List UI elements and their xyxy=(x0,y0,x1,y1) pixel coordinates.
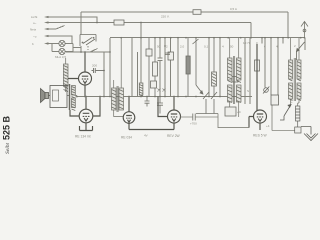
wire x104 xyxy=(103,52,105,97)
wire x265 xyxy=(264,38,266,88)
svg-text:+: + xyxy=(291,100,293,104)
component box under bus3 xyxy=(146,49,152,56)
component box on x257 xyxy=(255,60,260,71)
wire y113.5 xyxy=(196,113,218,115)
svg-text:RE 034: RE 034 xyxy=(121,136,132,140)
svg-text:200: 200 xyxy=(92,64,97,68)
wire x170 xyxy=(170,38,172,97)
wire terminal line 3 with switch blade xyxy=(46,26,65,30)
component box mid xyxy=(151,81,157,88)
switch S1 box xyxy=(80,35,96,47)
antenna symbol xyxy=(301,22,308,39)
speaker LS xyxy=(41,86,68,108)
wire x305 right drop xyxy=(304,38,306,50)
svg-text:0,5 A: 0,5 A xyxy=(230,7,237,11)
wire x178 xyxy=(177,38,179,97)
svg-text:525 B: 525 B xyxy=(2,115,12,140)
wire bus1 left drop xyxy=(80,12,82,35)
tube V5 xyxy=(249,44,267,130)
wire contact blade on y52 xyxy=(90,49,98,53)
interstage transformer T2 xyxy=(112,38,124,117)
fuse F1 on bus1 xyxy=(193,10,201,15)
svg-text:Netz: Netz xyxy=(30,28,37,32)
wire lamp bracket right xyxy=(65,44,81,52)
jack circle xyxy=(263,87,269,94)
wire x132 xyxy=(131,38,133,97)
svg-text:Licht: Licht xyxy=(31,15,38,19)
lamp L2 xyxy=(59,48,65,54)
svg-text:+4: +4 xyxy=(266,124,270,128)
ground arrow xyxy=(301,127,318,141)
capacitor C3 700 xyxy=(193,114,195,121)
svg-text:220 V.: 220 V. xyxy=(161,15,170,19)
wire x271 xyxy=(270,38,272,95)
output transformer T1 xyxy=(67,84,77,111)
svg-text:2,0: 2,0 xyxy=(180,45,185,49)
svg-text:4V: 4V xyxy=(144,134,148,138)
wire right cluster feed xyxy=(272,95,295,131)
battery cell box xyxy=(295,127,301,133)
component box x170 xyxy=(168,52,174,60)
antenna coil LA xyxy=(64,58,69,92)
plus marks xyxy=(266,100,293,128)
wire switch feed xyxy=(80,46,82,52)
svg-text:Seibt: Seibt xyxy=(5,143,11,154)
value labels xyxy=(55,7,296,126)
wire bus1 top xyxy=(81,11,288,13)
capacitor C4 xyxy=(232,77,238,83)
wire x160 with capacitor xyxy=(159,38,161,97)
wire line y52 xyxy=(66,51,110,53)
wire x220 xyxy=(219,38,221,97)
resistor R5 on x141 xyxy=(139,83,143,95)
svg-text:o~: o~ xyxy=(33,21,37,25)
af transformer T3 lower xyxy=(228,85,242,117)
svg-text:0,1: 0,1 xyxy=(204,45,209,49)
wire terminal line 4 xyxy=(46,36,72,44)
svg-text:REV 2W: REV 2W xyxy=(167,134,181,138)
terminal arrowheads xyxy=(44,16,49,45)
tube V1 xyxy=(68,52,104,97)
svg-text:S: S xyxy=(247,89,249,93)
wire x165 xyxy=(164,38,166,97)
wire terminal line 1 xyxy=(46,17,97,23)
tube labels xyxy=(75,134,267,140)
switch blade bottom right xyxy=(280,105,291,121)
Seibt 525 B logo xyxy=(2,115,12,154)
svg-text:50: 50 xyxy=(230,45,234,49)
wire x196 grid leak arrow xyxy=(193,38,203,94)
terminal labels xyxy=(30,15,38,46)
tube V3 xyxy=(123,97,135,130)
component box R6 xyxy=(271,95,279,105)
resistor R3 xyxy=(187,38,189,97)
wire bus2 xyxy=(46,23,251,39)
rf transformer T4 lower xyxy=(289,83,302,106)
rf transformer T4 upper xyxy=(289,38,302,101)
wire tube4 anode to corner xyxy=(181,114,250,128)
switch blade SB2 xyxy=(211,92,217,114)
tube V2 xyxy=(70,97,100,131)
svg-text:MLA 3,5: MLA 3,5 xyxy=(55,55,66,59)
wire x141 xyxy=(140,23,142,97)
wire terminal line 5 xyxy=(46,43,52,45)
wire stubs below bus3 xyxy=(262,38,283,44)
x-marks xyxy=(158,89,166,92)
wire x137 xyxy=(137,52,139,97)
resistor R1 on bus2 xyxy=(114,20,124,25)
wire x278 xyxy=(277,38,279,95)
wire switch dashed link xyxy=(87,46,89,52)
resistor R4 xyxy=(213,38,215,97)
capacitor C2 xyxy=(145,97,150,107)
wire bus3 xyxy=(110,37,305,39)
svg-text:+700: +700 xyxy=(190,122,197,126)
wire x209 xyxy=(208,38,210,97)
resistor R2 xyxy=(154,38,156,97)
switch blade top right xyxy=(297,42,305,60)
tube V4 xyxy=(129,97,181,130)
capacitor block C5 xyxy=(225,107,236,116)
svg-text:50: 50 xyxy=(157,45,161,49)
wire lamp bracket left xyxy=(52,44,59,52)
wire bus3 left drop xyxy=(109,38,111,97)
wire bus4 xyxy=(77,96,252,98)
switch blade SB1 xyxy=(203,92,209,114)
svg-text:RES 5 W: RES 5 W xyxy=(253,134,267,138)
capacitor C1 xyxy=(165,53,170,55)
wire x250 xyxy=(245,38,250,104)
lamp L1 xyxy=(59,40,65,46)
capacitor C6 x160 xyxy=(157,97,163,114)
svg-text:~o: ~o xyxy=(33,35,37,39)
af transformer T3 upper xyxy=(228,38,242,104)
wire bus1 right drop xyxy=(287,12,289,38)
svg-text:10 70: 10 70 xyxy=(243,41,251,45)
svg-text:RE 134 mt: RE 134 mt xyxy=(75,135,91,139)
resistor ladder right xyxy=(296,106,300,127)
